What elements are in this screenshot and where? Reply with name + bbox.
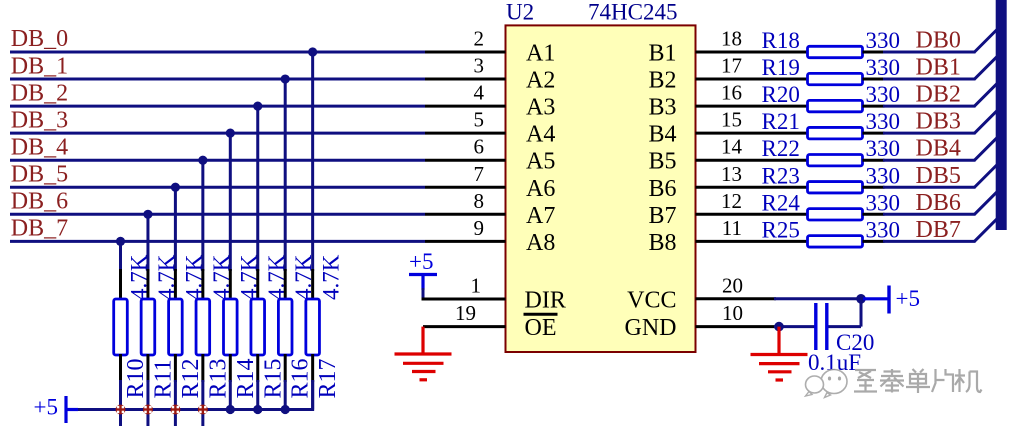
svg-text:R23: R23: [762, 163, 800, 188]
wire DB_7 bus: [10, 240, 425, 243]
pin name A2: [526, 68, 555, 94]
net label DB0: [916, 28, 961, 54]
pin number 19: [455, 301, 476, 325]
svg-text:DB_5: DB_5: [11, 161, 68, 187]
svg-text:7: 7: [474, 162, 485, 186]
wire R11 to +5 rail: [146, 380, 149, 410]
svg-text:A2: A2: [526, 68, 555, 94]
pin name A4: [526, 122, 555, 148]
value label 4.7K for R13: [209, 254, 234, 300]
net label DB_7: [11, 216, 68, 242]
svg-text:DB_4: DB_4: [11, 134, 68, 160]
wire R13 to +5 rail: [201, 380, 204, 410]
svg-text:DB7: DB7: [916, 217, 961, 243]
junction on DB_4 at R13 tap: [198, 156, 207, 165]
net label DB2: [916, 82, 961, 108]
svg-text:15: 15: [721, 108, 742, 132]
svg-text:17: 17: [721, 54, 742, 78]
svg-text:B8: B8: [648, 230, 676, 256]
svg-text:R24: R24: [762, 190, 801, 215]
svg-text:1: 1: [471, 274, 482, 298]
pin 10 of U2 (GND): [696, 325, 777, 328]
junction on DB_0 at R17 tap: [308, 47, 317, 56]
wire R12 to +5 rail: [174, 380, 177, 410]
svg-text:R12: R12: [178, 358, 204, 398]
wire R22 to bus entry DB4: [863, 159, 976, 162]
net label DB_3: [11, 107, 68, 133]
IC U2 74HC245 body: [506, 25, 696, 352]
bus entry DB6: [975, 192, 998, 215]
svg-text:2: 2: [474, 27, 485, 51]
wire DB_5 to R12: [174, 187, 177, 271]
wire DB_3 bus: [10, 132, 425, 135]
svg-text:A6: A6: [526, 176, 555, 202]
bus entry DB3: [975, 111, 998, 133]
net label DB_2: [11, 80, 68, 106]
pin number 16: [721, 81, 742, 105]
wire continuing below rail at R13: [201, 410, 204, 426]
value label 4.7K for R15: [264, 254, 289, 300]
svg-text:DB3: DB3: [916, 109, 961, 135]
bus entry DB5: [975, 165, 998, 188]
pin number 13: [721, 162, 742, 186]
pin number 12: [721, 189, 742, 213]
svg-text:16: 16: [721, 81, 742, 105]
svg-text:4.7K: 4.7K: [319, 254, 344, 300]
pin name DIR: [525, 288, 566, 314]
pin name OE with overbar: [524, 314, 558, 341]
pin 7 of U2 (A6): [425, 186, 506, 189]
svg-text:13: 13: [721, 162, 742, 186]
pin name B5: [648, 149, 676, 175]
svg-text:A4: A4: [526, 122, 555, 148]
svg-text:330: 330: [866, 190, 901, 215]
net label DB6: [916, 190, 961, 216]
wire R10 to +5 rail: [119, 380, 122, 410]
net label DB1: [916, 55, 961, 81]
wire R23 to bus entry DB5: [863, 186, 976, 189]
wire continuing below rail at R12: [174, 410, 177, 426]
pin 14 of U2 (B5) and left lead of R22: [696, 159, 808, 162]
power +5 (DIR): [409, 249, 437, 290]
svg-text:B4: B4: [648, 122, 676, 148]
svg-text:330: 330: [866, 28, 901, 53]
watermark logo bubbles: [806, 370, 848, 398]
wire DB_1 to R16: [284, 79, 287, 271]
ground (GND pin net): [751, 327, 808, 380]
wire R18 to bus entry DB0: [863, 51, 976, 54]
junction on +5 rail at R14: [226, 405, 235, 414]
value label 330 for R18: [866, 28, 901, 53]
pin number 11: [722, 216, 742, 240]
designator label R15: [260, 358, 286, 398]
svg-text:DB0: DB0: [916, 28, 961, 54]
pin name B2: [648, 68, 676, 94]
designator label R10: [123, 358, 149, 398]
net label DB4: [916, 136, 961, 162]
pin number 7: [474, 162, 485, 186]
svg-text:330: 330: [866, 82, 901, 107]
wire R25 to bus entry DB7: [863, 240, 976, 243]
pin name B1: [648, 41, 676, 67]
pin number 17: [721, 54, 742, 78]
pin number 9: [474, 216, 485, 240]
wire R20 to bus entry DB2: [863, 105, 976, 108]
designator label R18: [762, 28, 800, 53]
svg-text:DB_1: DB_1: [11, 53, 68, 79]
pin name VCC: [627, 287, 676, 313]
junction VCC node: [856, 294, 866, 304]
value label 4.7K for R12: [181, 254, 206, 300]
designator label R11: [150, 359, 176, 398]
pin 17 of U2 (B2) and left lead of R19: [696, 78, 808, 81]
designator label R25: [762, 217, 800, 242]
pin number 5: [474, 108, 485, 132]
net label DB_6: [11, 189, 68, 215]
value label 4.7K for R11: [154, 254, 179, 300]
pin 9 of U2 (A8): [425, 240, 506, 243]
wire GND net: [774, 325, 816, 328]
designator label R22: [762, 136, 800, 161]
svg-text:R21: R21: [762, 109, 800, 134]
svg-text:330: 330: [866, 136, 901, 161]
power +5 (VCC): [863, 286, 920, 314]
net label DB_5: [11, 161, 68, 187]
cross-junction marker at R11: [143, 405, 153, 415]
resistor R24: [808, 209, 863, 220]
net label DB3: [916, 109, 961, 135]
resistor R21: [808, 127, 863, 138]
svg-text:18: 18: [721, 27, 742, 51]
cross-junction marker at R13: [198, 405, 208, 415]
wire DB_6 to R11: [146, 214, 149, 271]
designator label R19: [762, 55, 800, 80]
svg-text:19: 19: [455, 301, 476, 325]
pin number 3: [474, 54, 485, 78]
svg-text:R10: R10: [123, 358, 149, 398]
resistor R20: [808, 100, 863, 111]
designator label R20: [762, 82, 800, 107]
value label 330 for R25: [866, 217, 901, 242]
svg-text:3: 3: [474, 54, 485, 78]
wire R21 to bus entry DB3: [863, 132, 976, 135]
pin number 1: [471, 274, 482, 298]
svg-text:R17: R17: [315, 358, 341, 398]
pin name A1: [526, 41, 555, 67]
svg-text:A1: A1: [526, 41, 555, 67]
resistor R14: [224, 269, 238, 382]
wire DB_5 bus: [10, 186, 425, 189]
designator U2: [506, 0, 534, 25]
value label 4.7K for R16: [291, 254, 316, 300]
wire DB_2 to R15: [256, 106, 259, 271]
value label 330 for R23: [866, 163, 901, 188]
svg-text:330: 330: [866, 217, 901, 242]
pin 20 of U2 (VCC): [696, 297, 777, 300]
pin 1 of U2 (DIR): [422, 298, 506, 301]
svg-text:R20: R20: [762, 82, 800, 107]
svg-text:B3: B3: [648, 95, 676, 121]
wire continuing below rail at R10: [119, 410, 122, 426]
svg-text:DB2: DB2: [916, 82, 961, 108]
net label DB5: [916, 163, 961, 189]
net label DB_4: [11, 134, 68, 160]
resistor R18: [808, 46, 863, 57]
designator label R12: [178, 358, 204, 398]
value label 330 for R24: [866, 190, 901, 215]
resistor R23: [808, 182, 863, 193]
svg-text:B5: B5: [648, 149, 676, 175]
resistor R16: [278, 269, 292, 382]
svg-text:9: 9: [474, 216, 485, 240]
pin name A6: [526, 176, 555, 202]
svg-text:R19: R19: [762, 55, 800, 80]
wire DB_6 bus: [10, 213, 425, 216]
wire DB_0 to R17: [311, 52, 314, 271]
junction on DB_2 at R15 tap: [253, 102, 262, 111]
resistor R12: [169, 269, 183, 382]
svg-text:R15: R15: [260, 358, 286, 398]
junction on DB_7 at R10 tap: [116, 237, 125, 246]
part number 74HC245: [588, 0, 677, 25]
pin name B7: [648, 203, 676, 229]
value label 330 for R21: [866, 109, 901, 134]
pin 2 of U2 (A1): [425, 51, 506, 54]
resistor R15: [251, 269, 265, 382]
bus entry DB4: [975, 138, 998, 161]
svg-text:R11: R11: [150, 359, 176, 398]
svg-text:OE: OE: [525, 315, 557, 341]
svg-text:10: 10: [722, 301, 743, 325]
bus entry DB7: [975, 219, 998, 242]
svg-text:R14: R14: [233, 358, 259, 398]
pin number 20: [722, 273, 743, 297]
svg-text:14: 14: [721, 135, 743, 159]
svg-text:DB5: DB5: [916, 163, 961, 189]
net label DB_0: [11, 26, 68, 52]
junction on DB_3 at R14 tap: [226, 129, 235, 138]
junction on +5 rail at R15: [253, 405, 262, 414]
designator label R24: [762, 190, 801, 215]
wire DB_0 bus: [10, 51, 425, 54]
wire +5 rail: [66, 380, 313, 411]
junction on +5 rail at R16: [281, 405, 290, 414]
capacitor value 0.1uF: [808, 350, 861, 375]
wire R15 to +5 rail: [256, 380, 259, 410]
svg-text:A8: A8: [526, 230, 555, 256]
ground (OE): [395, 327, 452, 380]
svg-text:R18: R18: [762, 28, 800, 53]
wire DB_1 bus: [10, 78, 425, 81]
svg-text:330: 330: [866, 109, 901, 134]
bus entry DB0: [975, 30, 998, 53]
wire R16 to +5 rail: [284, 380, 287, 410]
designator label R13: [205, 358, 231, 398]
bus entry DB2: [975, 84, 998, 107]
svg-text:+5: +5: [896, 286, 920, 311]
junction on DB_1 at R16 tap: [281, 74, 290, 83]
pin 11 of U2 (B8) and left lead of R25: [696, 240, 808, 243]
power +5 (rail, bottom left): [34, 395, 79, 424]
pin number 15: [721, 108, 742, 132]
capacitor C20: [816, 303, 827, 350]
pin name A3: [526, 95, 555, 121]
pin 5 of U2 (A4): [425, 132, 506, 135]
svg-text:U2: U2: [506, 0, 534, 25]
svg-text:5: 5: [474, 108, 485, 132]
pin name A7: [526, 203, 555, 229]
pin 18 of U2 (B1) and left lead of R18: [696, 51, 808, 54]
pin number 14: [721, 135, 743, 159]
svg-text:DB6: DB6: [916, 190, 961, 216]
wire DB_4 bus: [10, 159, 425, 162]
pin 12 of U2 (B7) and left lead of R24: [696, 213, 808, 216]
wire R17 to +5 rail: [311, 380, 314, 410]
designator label R14: [233, 358, 259, 398]
wire +5 to pin 1: [422, 288, 425, 299]
svg-text:DIR: DIR: [525, 288, 566, 314]
wire DB_7 to R10: [119, 241, 122, 271]
svg-text:DB_7: DB_7: [11, 216, 68, 242]
wire DB_2 bus: [10, 105, 425, 108]
svg-text:B7: B7: [648, 203, 676, 229]
pin 15 of U2 (B4) and left lead of R21: [696, 132, 808, 135]
pin name GND: [625, 315, 677, 341]
junction on DB_5 at R12 tap: [171, 183, 180, 192]
pin number 4: [474, 81, 485, 105]
net label DB_1: [11, 53, 68, 79]
svg-text:R13: R13: [205, 358, 231, 398]
svg-text:A7: A7: [526, 203, 555, 229]
designator label R23: [762, 163, 800, 188]
pin name A5: [526, 149, 555, 175]
junction GND node: [774, 322, 784, 332]
svg-text:DB_0: DB_0: [11, 26, 68, 52]
svg-text:DB1: DB1: [916, 55, 961, 81]
capacitor designator C20: [836, 330, 874, 355]
svg-text:+5: +5: [409, 249, 433, 274]
pin 8 of U2 (A7): [425, 213, 506, 216]
svg-text:DB_3: DB_3: [11, 107, 68, 133]
svg-text:4: 4: [474, 81, 485, 105]
svg-text:DB_6: DB_6: [11, 189, 68, 215]
wire DB_3 to R14: [229, 133, 232, 271]
svg-text:VCC: VCC: [627, 287, 676, 313]
svg-text:8: 8: [474, 189, 485, 213]
wire R24 to bus entry DB6: [863, 213, 976, 216]
svg-text:B6: B6: [648, 176, 676, 202]
svg-text:A3: A3: [526, 95, 555, 121]
resistor R13: [196, 269, 210, 382]
svg-text:DB_2: DB_2: [11, 80, 68, 106]
net label DB7: [916, 217, 961, 243]
pin 16 of U2 (B3) and left lead of R20: [696, 105, 808, 108]
pin number 10: [722, 301, 743, 325]
svg-text:A5: A5: [526, 149, 555, 175]
pin 6 of U2 (A5): [425, 159, 506, 162]
svg-text:R22: R22: [762, 136, 800, 161]
resistor R11: [141, 269, 155, 382]
svg-text:R16: R16: [288, 358, 314, 398]
svg-text:11: 11: [722, 216, 742, 240]
value label 330 for R22: [866, 136, 901, 161]
bus entry DB1: [975, 57, 998, 80]
value label 4.7K for R10: [127, 254, 152, 300]
svg-text:R25: R25: [762, 217, 800, 242]
resistor R22: [808, 155, 863, 166]
svg-text:6: 6: [474, 135, 485, 159]
resistor R25: [808, 236, 863, 247]
designator label R16: [288, 358, 314, 398]
svg-text:74HC245: 74HC245: [588, 0, 677, 25]
cross-junction marker at R12: [170, 405, 180, 415]
wire R14 to +5 rail: [229, 380, 232, 410]
junction on DB_6 at R11 tap: [143, 210, 152, 219]
svg-text:12: 12: [721, 189, 742, 213]
svg-text:B1: B1: [648, 41, 676, 67]
pin number 6: [474, 135, 485, 159]
pin name B8: [648, 230, 676, 256]
svg-text:330: 330: [866, 163, 901, 188]
pin name B6: [648, 176, 676, 202]
value label 330 for R20: [866, 82, 901, 107]
svg-text:DB4: DB4: [916, 136, 961, 162]
pin number 8: [474, 189, 485, 213]
bus DB[0..7]: [996, 0, 1007, 230]
value label 4.7K for R14: [236, 254, 261, 300]
wire continuing below rail at R11: [146, 410, 149, 426]
value label 4.7K for R17: [319, 254, 344, 300]
wire R19 to bus entry DB1: [863, 78, 976, 81]
resistor R17: [306, 269, 320, 382]
value label 330 for R19: [866, 55, 901, 80]
svg-text:+5: +5: [34, 395, 58, 420]
svg-text:330: 330: [866, 55, 901, 80]
pin 19 of U2 (OE): [423, 325, 506, 328]
pin 3 of U2 (A2): [425, 78, 506, 81]
resistor R10: [114, 269, 128, 382]
pin name A8: [526, 230, 555, 256]
wire VCC to capacitor C20: [827, 299, 861, 327]
svg-text:B2: B2: [648, 68, 676, 94]
svg-text:20: 20: [722, 273, 743, 297]
designator label R17: [315, 358, 341, 398]
designator label R21: [762, 109, 800, 134]
cross-junction marker at R10: [116, 405, 126, 415]
pin number 18: [721, 27, 742, 51]
watermark text: [854, 369, 982, 393]
pin 13 of U2 (B6) and left lead of R23: [696, 186, 808, 189]
wire DB_4 to R13: [201, 160, 204, 271]
wire VCC net: [774, 297, 861, 300]
svg-text:GND: GND: [625, 315, 677, 341]
pin 4 of U2 (A3): [425, 105, 506, 108]
pin number 2: [474, 27, 485, 51]
pin name B4: [648, 122, 676, 148]
pin name B3: [648, 95, 676, 121]
resistor R19: [808, 73, 863, 84]
